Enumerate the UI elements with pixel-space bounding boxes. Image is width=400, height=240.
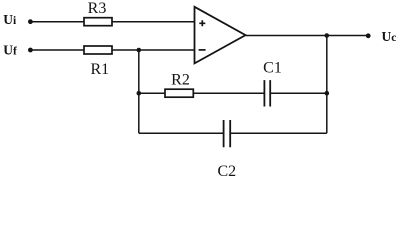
node Uc terminal xyxy=(366,33,371,38)
junction node R2 row left xyxy=(137,91,142,96)
op-amp U1 xyxy=(195,7,246,64)
wire left to R2 xyxy=(139,92,165,94)
op-amp - pin mark xyxy=(199,49,206,51)
wire C2 to right vertical xyxy=(230,132,327,134)
op-amp + pin mark xyxy=(199,20,205,26)
resistor R3 xyxy=(84,18,112,26)
junction node after R1 xyxy=(137,48,142,53)
node Uf terminal xyxy=(28,48,33,53)
svg-text:C1: C1 xyxy=(263,60,282,77)
junction node R2 row right xyxy=(325,91,330,96)
wire left to C2 xyxy=(139,132,224,134)
svg-text:Uc: Uc xyxy=(382,29,397,44)
resistor R1 xyxy=(84,46,112,54)
svg-text:R1: R1 xyxy=(90,61,109,78)
wire C1 to right vertical xyxy=(270,92,327,94)
wire left vertical feedback xyxy=(138,50,140,133)
resistor R2 xyxy=(165,89,193,97)
junction node output xyxy=(325,33,330,38)
wire op-amp output xyxy=(246,35,369,37)
svg-text:R3: R3 xyxy=(88,0,107,17)
wire Ui to R3 xyxy=(30,21,84,23)
svg-text:Uf: Uf xyxy=(3,42,17,57)
svg-text:C2: C2 xyxy=(217,163,236,180)
wire R2 to C1 xyxy=(193,92,264,94)
capacitor C1 xyxy=(264,80,270,106)
svg-text:Ui: Ui xyxy=(3,12,17,27)
wire R3 to op-amp + input xyxy=(112,21,195,23)
node Ui terminal xyxy=(28,19,33,24)
wire Uf to R1 xyxy=(30,49,84,51)
svg-text:R2: R2 xyxy=(171,71,190,88)
capacitor C2 xyxy=(224,120,231,147)
wire right vertical feedback xyxy=(326,36,328,134)
wire R1 to op-amp - input xyxy=(112,49,195,51)
